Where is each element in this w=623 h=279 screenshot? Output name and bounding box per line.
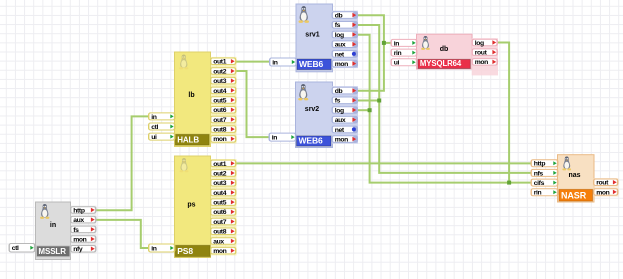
svg-text:aux: aux <box>73 217 84 224</box>
port lb.in <box>148 112 176 120</box>
wire lb.out1 to srv1.in <box>236 61 270 63</box>
wire branch db-net into db.in <box>384 42 391 44</box>
port srv2.db <box>332 87 359 95</box>
port srv1.fs <box>332 21 359 29</box>
svg-text:out7: out7 <box>213 219 227 226</box>
svg-text:out8: out8 <box>213 127 227 134</box>
label bar MYSQLR64 <box>418 59 471 69</box>
junction db-net / db.in <box>382 41 386 45</box>
label bar WEB6 <box>297 59 331 70</box>
port msslr.aux <box>70 216 97 224</box>
svg-text:in: in <box>394 40 400 47</box>
port ps.out5 <box>210 198 237 206</box>
svg-text:out4: out4 <box>213 190 227 197</box>
port ps.mon <box>210 247 237 255</box>
port backplate lb right ports <box>210 57 236 144</box>
svg-text:ui: ui <box>151 134 157 141</box>
port srv2.fs <box>332 97 359 105</box>
svg-text:out7: out7 <box>213 117 227 124</box>
svg-text:net: net <box>335 127 345 134</box>
svg-text:srv2: srv2 <box>305 106 320 113</box>
svg-text:nas: nas <box>568 172 580 179</box>
port srv2.mon <box>332 135 359 143</box>
port db.rin <box>391 49 418 57</box>
svg-text:ctl: ctl <box>151 124 158 131</box>
svg-text:PS8: PS8 <box>177 246 193 256</box>
port db.mon <box>472 58 499 66</box>
port db.ui <box>391 58 418 66</box>
port lb.out5 <box>210 96 237 104</box>
svg-text:in: in <box>272 59 278 66</box>
port lb.mon <box>210 135 237 143</box>
port msslr.ctl <box>9 243 36 253</box>
penguin icon on db <box>421 36 430 50</box>
port backplate db right ports <box>472 38 498 75</box>
svg-text:out6: out6 <box>213 107 227 114</box>
port db.log <box>472 39 499 47</box>
node in-node (MSSLR) <box>36 202 71 260</box>
penguin icon on nas <box>562 157 571 171</box>
svg-text:out5: out5 <box>213 200 227 207</box>
wire msslr.aux to ps.in <box>95 220 149 248</box>
penguin icon on srv2 <box>298 84 308 100</box>
svg-text:rin: rin <box>534 190 542 197</box>
label bar MSSLR <box>36 246 70 257</box>
svg-text:out8: out8 <box>213 229 227 236</box>
port ps.out1 <box>210 160 237 168</box>
label bar PS8 <box>175 245 210 256</box>
svg-text:nfy: nfy <box>73 246 83 253</box>
svg-text:mon: mon <box>335 61 348 68</box>
port nas.nfs <box>531 169 559 177</box>
svg-text:in: in <box>151 245 157 252</box>
port lb.out8 <box>210 125 237 133</box>
wire branch srv2.log into log-net <box>357 109 370 111</box>
svg-text:srv1: srv1 <box>305 32 320 39</box>
port backplate nas right ports <box>593 178 618 197</box>
svg-text:fs: fs <box>335 22 341 29</box>
port backplate srv2 right ports <box>332 86 358 143</box>
svg-text:out5: out5 <box>213 98 227 105</box>
port lb.out6 <box>210 106 237 114</box>
svg-text:net: net <box>335 51 345 58</box>
svg-text:out1: out1 <box>213 161 227 168</box>
svg-text:ui: ui <box>394 60 400 67</box>
svg-text:mon: mon <box>73 236 86 243</box>
node srv1 (WEB6) <box>296 4 333 72</box>
wire net-fs: srv1.fs down to nas.nfs <box>357 25 531 173</box>
label bar WEB6 <box>297 136 332 147</box>
svg-text:out3: out3 <box>213 78 227 85</box>
wire net-log: srv1.log down to nas.cifs <box>357 35 531 183</box>
node srv2 (WEB6) <box>296 82 333 148</box>
port backplate msslr right ports <box>70 206 96 254</box>
port nas.http <box>531 159 559 167</box>
svg-text:ps: ps <box>187 202 195 209</box>
port lb.out2 <box>210 67 237 75</box>
svg-text:mon: mon <box>213 248 226 255</box>
port srv1.log <box>332 31 359 39</box>
svg-text:out2: out2 <box>213 68 227 75</box>
port srv1.db <box>332 11 359 19</box>
junction srv2.fs / fs-net <box>377 99 381 103</box>
svg-text:cifs: cifs <box>534 180 545 187</box>
junction srv2.log / log-net <box>368 108 372 112</box>
svg-text:rout: rout <box>475 50 488 57</box>
svg-text:log: log <box>335 32 344 39</box>
svg-text:mon: mon <box>213 136 226 143</box>
svg-text:MYSQLR64: MYSQLR64 <box>420 59 462 68</box>
svg-text:fs: fs <box>73 227 79 234</box>
port backplate ps right ports <box>210 159 236 255</box>
svg-text:out3: out3 <box>213 180 227 187</box>
port ps.out4 <box>210 189 237 197</box>
port db.rout <box>472 48 499 56</box>
port lb.out7 <box>210 116 237 124</box>
wire lb.out2 to srv2.in <box>236 71 270 137</box>
svg-text:log: log <box>475 40 484 47</box>
wire branch db.log into log-net <box>497 43 510 183</box>
svg-text:rin: rin <box>394 50 402 57</box>
svg-text:WEB6: WEB6 <box>299 136 324 146</box>
port lb.out4 <box>210 87 237 95</box>
svg-text:db: db <box>335 88 343 95</box>
wire msslr.http to lb.in <box>95 116 149 210</box>
port msslr.fs <box>70 226 97 234</box>
svg-text:in: in <box>151 114 157 121</box>
port srv1.in <box>269 58 297 67</box>
svg-text:NASR: NASR <box>561 190 587 200</box>
svg-text:fs: fs <box>335 98 341 105</box>
penguin icon on lb <box>179 55 188 70</box>
port srv1.net <box>332 50 359 58</box>
penguin icon on srv1 <box>299 6 310 23</box>
svg-text:MSSLR: MSSLR <box>38 247 66 256</box>
svg-text:out2: out2 <box>213 170 227 177</box>
port nas.cifs <box>531 179 559 187</box>
wire net-db: srv1.db down to srv2.db <box>357 15 384 91</box>
label bar HALB <box>175 134 209 145</box>
penguin icon on in-node <box>40 204 49 219</box>
node lb (HALB) <box>175 52 211 147</box>
label bar NASR <box>559 189 593 201</box>
node ps (PS8) <box>175 156 211 258</box>
svg-text:mon: mon <box>596 189 609 196</box>
port lb.out1 <box>210 58 237 66</box>
port db.in <box>391 39 418 47</box>
svg-text:aux: aux <box>335 117 346 124</box>
svg-text:db: db <box>335 13 343 20</box>
port nas.rin <box>531 188 559 196</box>
svg-text:mon: mon <box>335 137 348 144</box>
svg-text:rout: rout <box>596 180 609 187</box>
port srv2.aux <box>332 116 359 124</box>
port ps.out8 <box>210 228 237 236</box>
svg-text:nfs: nfs <box>534 170 544 177</box>
port msslr.nfy <box>70 245 97 253</box>
svg-text:db: db <box>440 46 449 53</box>
svg-text:aux: aux <box>335 42 346 49</box>
port msslr.http <box>70 206 97 214</box>
svg-text:WEB6: WEB6 <box>299 59 324 69</box>
svg-text:http: http <box>534 161 546 168</box>
node nas (NASR) <box>558 155 595 202</box>
port nas.mon <box>593 188 619 196</box>
svg-text:log: log <box>335 107 344 114</box>
port srv1.aux <box>332 40 359 48</box>
svg-text:lb: lb <box>188 92 194 99</box>
svg-text:out4: out4 <box>213 88 227 95</box>
svg-text:ctl: ctl <box>12 245 19 252</box>
svg-text:out6: out6 <box>213 209 227 216</box>
svg-text:mon: mon <box>475 59 488 66</box>
port ps.out6 <box>210 208 237 216</box>
port lb.out3 <box>210 77 237 85</box>
node db (MYSQLR64) <box>417 34 473 69</box>
penguin icon on ps <box>180 158 189 172</box>
wire ps.out1 to nas.http <box>236 162 532 164</box>
wire branch srv2.fs into fs-net <box>357 100 379 102</box>
port srv2.log <box>332 106 359 114</box>
port ps.out3 <box>210 179 237 187</box>
port srv1.mon <box>332 60 359 68</box>
port ps.out2 <box>210 169 237 177</box>
port srv2.net <box>332 126 359 134</box>
port ps.aux <box>210 237 237 245</box>
junction db.log / log-net <box>507 181 511 185</box>
port nas.rout <box>593 179 619 187</box>
svg-text:http: http <box>73 207 85 214</box>
svg-text:in: in <box>50 222 56 229</box>
port lb.ctl <box>148 123 176 131</box>
svg-text:in: in <box>272 135 278 142</box>
port ps.out7 <box>210 218 237 226</box>
svg-text:HALB: HALB <box>177 136 199 145</box>
svg-text:aux: aux <box>213 238 224 245</box>
port msslr.mon <box>70 235 97 243</box>
port backplate srv1 right ports <box>332 11 358 68</box>
port ps.in <box>148 244 176 253</box>
port srv2.in <box>269 133 297 142</box>
svg-text:out1: out1 <box>213 59 227 66</box>
port lb.ui <box>148 133 176 141</box>
